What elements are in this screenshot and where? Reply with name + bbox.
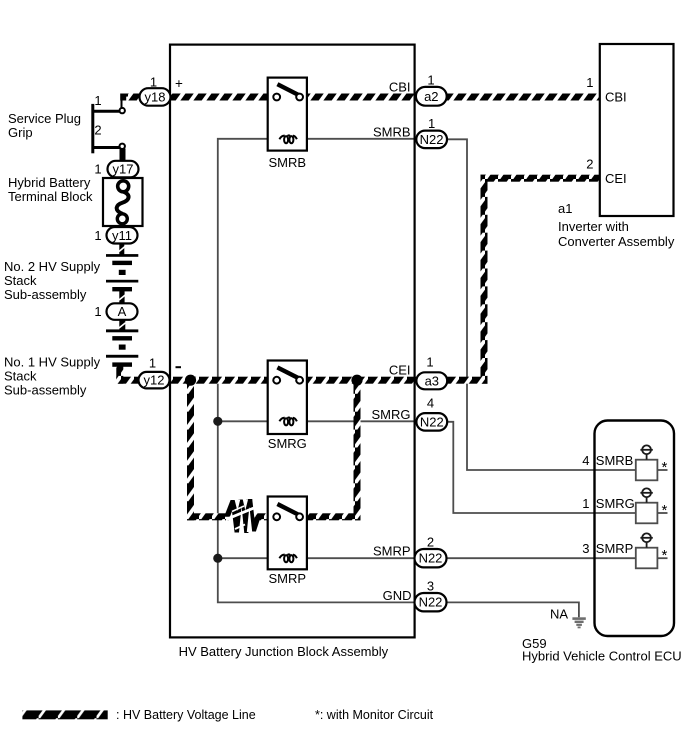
svg-text:N22: N22 bbox=[420, 132, 444, 147]
svg-text:y18: y18 bbox=[145, 90, 166, 105]
svg-text:Service Plug: Service Plug bbox=[8, 111, 81, 126]
svg-text:No. 2 HV Supply: No. 2 HV Supply bbox=[4, 259, 101, 274]
svg-text:1: 1 bbox=[94, 93, 101, 108]
svg-text:y17: y17 bbox=[113, 162, 134, 177]
svg-text:CBI: CBI bbox=[389, 80, 411, 95]
svg-text:Stack: Stack bbox=[4, 369, 37, 384]
svg-text:CEI: CEI bbox=[389, 363, 411, 378]
svg-text:SMRG: SMRG bbox=[372, 407, 411, 422]
svg-text:3: 3 bbox=[582, 541, 589, 556]
svg-text:NA: NA bbox=[550, 607, 568, 622]
svg-text:Inverter with: Inverter with bbox=[558, 219, 629, 234]
svg-text:SMRB: SMRB bbox=[596, 453, 634, 468]
svg-text:Converter Assembly: Converter Assembly bbox=[558, 234, 675, 249]
svg-text:: HV Battery Voltage Line: : HV Battery Voltage Line bbox=[116, 708, 256, 722]
svg-text:*: with Monitor Circuit: *: with Monitor Circuit bbox=[315, 708, 434, 722]
svg-text:SMRB: SMRB bbox=[373, 124, 411, 139]
svg-text:1: 1 bbox=[149, 356, 156, 371]
svg-text:Hybrid Battery: Hybrid Battery bbox=[8, 175, 91, 190]
svg-text:*: * bbox=[662, 459, 668, 476]
svg-text:y11: y11 bbox=[112, 228, 132, 243]
svg-text:1: 1 bbox=[427, 72, 434, 87]
svg-text:N22: N22 bbox=[420, 414, 444, 429]
svg-text:Stack: Stack bbox=[4, 273, 37, 288]
svg-text:Hybrid Vehicle Control ECU: Hybrid Vehicle Control ECU bbox=[522, 649, 682, 664]
svg-text:GND: GND bbox=[383, 588, 412, 603]
svg-text:2: 2 bbox=[94, 123, 101, 138]
svg-text:HV Battery Junction Block Asse: HV Battery Junction Block Assembly bbox=[179, 644, 389, 659]
svg-text:3: 3 bbox=[427, 579, 434, 594]
svg-text:Sub-assembly: Sub-assembly bbox=[4, 383, 87, 398]
svg-text:1: 1 bbox=[428, 116, 435, 131]
svg-text:*: * bbox=[662, 547, 668, 564]
svg-text:1: 1 bbox=[150, 75, 157, 90]
svg-text:SMRP: SMRP bbox=[596, 541, 634, 556]
svg-text:N22: N22 bbox=[419, 551, 443, 566]
svg-text:CEI: CEI bbox=[605, 171, 627, 186]
svg-text:a2: a2 bbox=[424, 89, 438, 104]
svg-text:SMRP: SMRP bbox=[269, 571, 307, 586]
svg-text:1: 1 bbox=[426, 355, 433, 370]
svg-text:1: 1 bbox=[94, 304, 101, 319]
svg-text:SMRB: SMRB bbox=[269, 155, 307, 170]
svg-text:a3: a3 bbox=[425, 373, 439, 388]
svg-text:Sub-assembly: Sub-assembly bbox=[4, 287, 87, 302]
svg-text:SMRP: SMRP bbox=[373, 544, 411, 559]
svg-text:SMRG: SMRG bbox=[596, 496, 635, 511]
svg-text:2: 2 bbox=[586, 157, 593, 172]
svg-text:+: + bbox=[175, 76, 183, 91]
svg-text:1: 1 bbox=[94, 228, 101, 243]
svg-text:Terminal Block: Terminal Block bbox=[8, 189, 93, 204]
svg-text:1: 1 bbox=[94, 162, 101, 177]
svg-text:*: * bbox=[662, 502, 668, 519]
svg-text:1: 1 bbox=[586, 75, 593, 90]
svg-text:SMRG: SMRG bbox=[268, 436, 307, 451]
svg-text:N22: N22 bbox=[419, 595, 443, 610]
svg-text:1: 1 bbox=[582, 496, 589, 511]
svg-text:4: 4 bbox=[427, 396, 434, 411]
svg-text:CBI: CBI bbox=[605, 90, 627, 105]
svg-text:y12: y12 bbox=[144, 373, 165, 388]
svg-text:No. 1 HV Supply: No. 1 HV Supply bbox=[4, 355, 101, 370]
svg-text:2: 2 bbox=[427, 535, 434, 550]
svg-text:A: A bbox=[118, 304, 127, 319]
svg-text:a1: a1 bbox=[558, 201, 572, 216]
svg-text:4: 4 bbox=[582, 453, 589, 468]
svg-text:Grip: Grip bbox=[8, 125, 33, 140]
